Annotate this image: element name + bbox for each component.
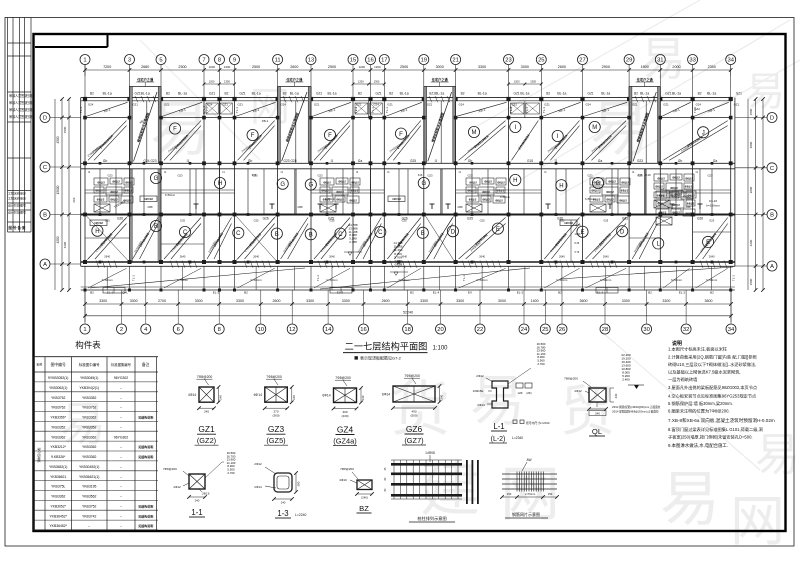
svg-text:TL-1: TL-1	[731, 275, 735, 282]
svg-text:GZ1: GZ1	[135, 92, 141, 96]
svg-text:12: 12	[289, 327, 295, 333]
svg-text:I2a: I2a	[598, 159, 603, 163]
svg-text:BL-1a: BL-1a	[141, 92, 150, 96]
middle band sub partitions	[85, 101, 731, 260]
svg-text:构件表: 构件表	[75, 340, 101, 350]
svg-text:YKB3362: YKB3362	[82, 416, 96, 420]
svg-text:6: 6	[177, 327, 180, 333]
svg-text:2640: 2640	[603, 255, 609, 259]
svg-text:3300: 3300	[622, 299, 630, 303]
svg-text:F: F	[399, 132, 403, 138]
svg-text:GZ1: GZ1	[240, 92, 246, 96]
svg-text:B: B	[275, 232, 279, 238]
svg-text:YKB3352: YKB3352	[82, 445, 96, 449]
svg-text:4200: 4200	[749, 239, 753, 246]
svg-text:TL-2: TL-2	[509, 107, 513, 114]
svg-text:Φ8@2: Φ8@2	[659, 194, 667, 198]
svg-text:12C02: 12C02	[144, 197, 153, 201]
svg-text:3300: 3300	[342, 299, 350, 303]
svg-text:EL-2: EL-2	[337, 290, 344, 294]
svg-text:h=50mm: h=50mm	[477, 278, 489, 282]
svg-text:YKB3652(1): YKB3652(1)	[49, 465, 67, 469]
svg-text:BL-1a: BL-1a	[435, 92, 444, 96]
middle band rooms	[85, 172, 731, 209]
svg-text:4200: 4200	[63, 241, 67, 248]
svg-text:240: 240	[595, 412, 600, 416]
svg-text:砖砌U10,三层及以下T砌体做法[]..水泥砂浆做法,: 砖砌U10,三层及以下T砌体做法[]..水泥砂浆做法,	[668, 361, 756, 368]
svg-text:2600: 2600	[558, 65, 566, 69]
svg-text:2500: 2500	[328, 65, 336, 69]
svg-text:1300: 1300	[224, 65, 231, 69]
svg-text:1900: 1900	[641, 65, 649, 69]
svg-text:2.788: 2.788	[349, 240, 357, 244]
svg-text:见结构说明: 见结构说明	[138, 523, 153, 528]
svg-text:F: F	[251, 133, 255, 139]
svg-text:4200: 4200	[56, 236, 60, 243]
svg-text:1200: 1200	[359, 65, 366, 69]
svg-text:G25: G25	[330, 219, 335, 223]
svg-text:A: A	[770, 264, 774, 270]
svg-text:GZ1: GZ1	[209, 92, 215, 96]
svg-text:h=50mm: h=50mm	[327, 278, 339, 282]
svg-text:2.计算荷载采用(2Q,钢筋门窗[内装 配,门窗[]参照: 2.计算荷载采用(2Q,钢筋门窗[内装 配,门窗[]参照	[668, 354, 757, 361]
balcony band	[81, 220, 736, 294]
svg-text:BL-1a: BL-1a	[290, 92, 299, 96]
svg-text:--: --	[88, 524, 90, 528]
svg-text:M: M	[472, 130, 477, 136]
svg-text:GZ1: GZ1	[427, 103, 433, 107]
svg-text:Φ8@2: Φ8@2	[351, 181, 359, 185]
svg-text:Φ8@2: Φ8@2	[482, 190, 490, 194]
svg-text:Φ8@2: Φ8@2	[467, 189, 475, 193]
svg-text:--: --	[120, 524, 122, 528]
svg-text:Φ8@2: Φ8@2	[110, 190, 118, 194]
svg-text:住宅户之通: 住宅户之通	[137, 77, 154, 82]
svg-text:B: B	[770, 213, 774, 219]
svg-text:建: 建	[420, 456, 480, 523]
svg-text:标准图中编号: 标准图中编号	[79, 362, 100, 367]
svg-text:Φ8@2: Φ8@2	[621, 189, 629, 193]
svg-text:2Φ8: 2Φ8	[686, 205, 692, 209]
svg-text:Φ8@2: Φ8@2	[97, 198, 105, 202]
svg-text:5.76: 5.76	[575, 251, 580, 254]
svg-text:标准图集编号: 标准图集编号	[111, 362, 131, 367]
svg-text:1500: 1500	[749, 278, 753, 285]
svg-text:G25: G25	[603, 219, 608, 223]
svg-text:2640: 2640	[479, 255, 485, 259]
title tab top-left	[35, 46, 108, 48]
svg-text:易: 易	[660, 466, 720, 533]
svg-text:1300: 1300	[530, 80, 536, 84]
svg-text:YKB36621: YKB36621	[50, 475, 66, 479]
svg-text:Φ8@2: Φ8@2	[606, 190, 614, 194]
svg-text:h=50mm: h=50mm	[585, 197, 595, 201]
svg-text:I1: I1	[331, 159, 334, 163]
svg-text:--: --	[120, 475, 122, 479]
svg-text:XB-1: XB-1	[262, 119, 269, 123]
svg-text:GZ1: GZ1	[512, 103, 518, 107]
svg-text:14: 14	[325, 327, 332, 333]
svg-text:15000: 15000	[56, 185, 60, 194]
svg-text:YKB3052*: YKB3052*	[50, 505, 66, 509]
svg-text:工程名称审定: 工程名称审定	[8, 196, 26, 201]
svg-text:BZ: BZ	[359, 504, 369, 513]
svg-text:150: 150	[548, 492, 553, 496]
svg-text:YKB3752: YKB3752	[82, 505, 96, 509]
svg-text:二一七层结构平面图: 二一七层结构平面图	[345, 341, 428, 352]
svg-text:1: 1	[83, 327, 86, 333]
svg-text:子板宽)250(墙厚,按门侧砌)未留安装孔D=500.: 子板宽)250(墙厚,按门侧砌)未留安装孔D=500.	[668, 434, 753, 441]
svg-text:(240): (240)	[361, 496, 368, 500]
svg-text:3000: 3000	[436, 65, 444, 69]
svg-text:9.KB326*: 9.KB326*	[51, 455, 66, 459]
svg-text:--: --	[120, 495, 122, 499]
svg-text:2Φ12: 2Φ12	[254, 462, 262, 466]
svg-text:一层为砌筑砖墙: 一层为砌筑砖墙	[668, 376, 697, 383]
svg-text:18: 18	[404, 327, 410, 333]
svg-text:--: --	[120, 514, 122, 518]
svg-text:4Φ14: 4Φ14	[188, 393, 196, 397]
svg-text:7Φ8@200: 7Φ8@200	[335, 376, 351, 380]
svg-text:G15: G15	[527, 159, 533, 163]
svg-text:7Φ8@200: 7Φ8@200	[340, 467, 354, 471]
svg-text:2640: 2640	[559, 255, 565, 259]
svg-text:GZ1: GZ1	[632, 103, 638, 107]
svg-text:2900: 2900	[602, 65, 610, 69]
svg-text:3600: 3600	[580, 299, 588, 303]
svg-text:3: 3	[128, 58, 131, 64]
svg-text:380: 380	[297, 481, 301, 486]
svg-text:4Φ12: 4Φ12	[574, 389, 582, 393]
svg-text:GZ1: GZ1	[734, 103, 740, 107]
svg-text:B2: B2	[90, 92, 94, 96]
svg-text:--: --	[120, 386, 122, 390]
svg-text:网: 网	[730, 490, 785, 552]
svg-text:B2: B2	[461, 92, 465, 96]
right vertical dimension lines	[748, 97, 765, 292]
svg-text:Φ8@2: Φ8@2	[349, 199, 357, 203]
svg-text:2X6: 2X6	[72, 197, 76, 202]
svg-text:34: 34	[728, 327, 735, 333]
svg-text:1200: 1200	[514, 80, 520, 84]
bottom dimension lines	[83, 290, 733, 322]
svg-text:G25: G25	[467, 216, 473, 220]
svg-text:2Φ14 梁端锚固(4Φ8@200mm),正截面拉: 2Φ14 梁端锚固(4Φ8@200mm),正截面拉	[612, 409, 659, 413]
lower band slab diagonals	[88, 218, 728, 260]
svg-text:7Φ8@200: 7Φ8@200	[404, 374, 420, 378]
svg-text:G25: G25	[180, 219, 185, 223]
svg-text:6.圈梁未注明的位置为7Φ8@200.: 6.圈梁未注明的位置为7Φ8@200.	[668, 408, 730, 415]
svg-text:GZ1: GZ1	[588, 92, 594, 96]
svg-text:2680: 2680	[141, 65, 149, 69]
svg-text:G25: G25	[105, 219, 110, 223]
svg-text:B2: B2	[558, 290, 562, 294]
svg-text:C: C	[236, 231, 241, 237]
column detail GZ6	[382, 374, 444, 445]
svg-text:3300: 3300	[99, 299, 107, 303]
svg-text:GZ1: GZ1	[663, 103, 669, 107]
svg-text:见结构说明: 见结构说明	[138, 513, 153, 518]
svg-text:EL-1: EL-1	[107, 290, 114, 294]
svg-text:B2: B2	[634, 92, 638, 96]
component table	[34, 357, 159, 530]
svg-text:h=50mm: h=50mm	[600, 278, 612, 282]
density pass 2	[92, 142, 727, 268]
svg-text:3300: 3300	[236, 299, 244, 303]
svg-text:(GZ5): (GZ5)	[266, 436, 285, 445]
svg-text:BL-1a: BL-1a	[520, 92, 529, 96]
svg-text:Φ8@2: Φ8@2	[497, 181, 505, 185]
svg-text:2600: 2600	[273, 299, 281, 303]
svg-text:G24: G24	[459, 103, 465, 107]
svg-text:Φ8@2: Φ8@2	[655, 185, 663, 189]
svg-text:G25: G25	[709, 219, 714, 223]
svg-text:GZ1: GZ1	[133, 103, 139, 107]
grid B thick wall	[81, 213, 735, 221]
svg-text:150: 150	[507, 492, 512, 496]
svg-text:2.400: 2.400	[622, 378, 630, 382]
svg-text:6Φ14: 6Φ14	[322, 394, 330, 398]
svg-text:(2Φ): (2Φ)	[526, 391, 531, 395]
svg-text:TL-1: TL-1	[542, 107, 546, 113]
room letter circles - upper band	[169, 121, 708, 141]
svg-text:G23 G28: G23 G28	[284, 159, 297, 163]
svg-text:G25: G25	[480, 219, 485, 223]
left letter circles and leaders	[40, 113, 81, 270]
svg-text:2Φ14: 2Φ14	[254, 485, 262, 489]
svg-text:2500: 2500	[252, 65, 260, 69]
svg-text:B: B	[421, 231, 425, 237]
svg-text:TL-1: TL-1	[316, 275, 320, 282]
svg-text:YKB3062(1): YKB3062(1)	[49, 386, 67, 390]
svg-text:Φ8@2: Φ8@2	[621, 181, 629, 185]
svg-text:YKB375L: YKB375L	[51, 485, 65, 489]
svg-text:YKB3752: YKB3752	[51, 396, 65, 400]
svg-text:1200: 1200	[358, 80, 364, 84]
svg-text:52240: 52240	[403, 310, 413, 314]
svg-text:2Φ8: 2Φ8	[458, 205, 464, 209]
svg-text:Φ8@2: Φ8@2	[674, 193, 682, 197]
svg-text:2Φ12 圈梁(配筋)(4Φ20@60)mm,正截面拉: 2Φ12 圈梁(配筋)(4Φ20@60)mm,正截面拉	[612, 405, 661, 409]
svg-text:G23: G23	[707, 174, 713, 178]
svg-text:EL-2: EL-2	[597, 290, 604, 294]
svg-text:1-1: 1-1	[191, 508, 202, 517]
svg-text:J: J	[702, 131, 705, 137]
plan title text	[343, 341, 448, 361]
svg-text:Φ8@2: Φ8@2	[469, 181, 477, 185]
svg-text:BL-1a: BL-1a	[601, 92, 610, 96]
svg-text:日期: 日期	[26, 107, 32, 112]
pile arrangement diagram	[384, 451, 479, 522]
right letter circles and leaders	[735, 113, 777, 272]
svg-text:2640: 2640	[709, 255, 715, 259]
svg-text:--: --	[120, 416, 122, 420]
svg-text:Φ8@2: Φ8@2	[110, 198, 118, 202]
svg-text:240: 240	[361, 395, 365, 400]
svg-text:GZ1: GZ1	[164, 103, 170, 107]
svg-text:BL-1a: BL-1a	[640, 92, 649, 96]
svg-text:EL-2: EL-2	[679, 290, 686, 294]
grid D interior wall	[83, 116, 732, 120]
svg-text:(GZ7): (GZ7)	[404, 436, 423, 445]
svg-text:住宅户之通: 住宅户之通	[637, 77, 654, 82]
svg-text:YKB304(2(1): YKB304(2(1)	[79, 386, 99, 390]
svg-text:BL-1a: BL-1a	[400, 92, 409, 96]
svg-text:26: 26	[559, 327, 565, 333]
svg-text:2Φ8: 2Φ8	[298, 205, 304, 209]
svg-text:--: --	[120, 465, 122, 469]
svg-text:3300: 3300	[478, 65, 486, 69]
detail 1-3	[254, 462, 306, 518]
svg-text:25: 25	[538, 58, 544, 64]
stair shafts	[130, 77, 661, 163]
svg-text:名称: 名称	[36, 362, 42, 367]
svg-text:K16: K16	[252, 173, 257, 177]
svg-text:YKB3562: YKB3562	[82, 495, 96, 499]
svg-text:2.700: 2.700	[227, 471, 235, 475]
svg-text:TL-1: TL-1	[79, 107, 83, 114]
XB-1 slab diagonals top band	[87, 102, 729, 116]
svg-text:9.本图淋水做法,水,电配合施工.: 9.本图淋水做法,水,电配合施工.	[668, 442, 728, 449]
svg-text:I2a: I2a	[713, 159, 718, 163]
svg-text:GZ1: GZ1	[544, 103, 550, 107]
svg-text:B2: B2	[225, 92, 229, 96]
svg-text:h=50mm: h=50mm	[325, 197, 335, 201]
svg-text:F: F	[173, 127, 177, 133]
svg-text:K16: K16	[638, 173, 643, 177]
svg-text:GZ1: GZ1	[238, 103, 244, 107]
svg-text:见结构说明: 见结构说明	[138, 504, 153, 509]
svg-text:B: B	[43, 213, 47, 219]
svg-text:L=2240: L=2240	[295, 513, 307, 517]
svg-text:8.窗顶门窗过梁表详见标准图集L G101,荷载二级,洞: 8.窗顶门窗过梁表详见标准图集L G101,荷载二级,洞	[668, 426, 763, 433]
svg-text:25: 25	[542, 327, 548, 333]
svg-text:h=50mm: h=50mm	[706, 278, 718, 282]
svg-text:1300: 1300	[224, 80, 230, 84]
svg-text:Φ8@2: Φ8@2	[125, 181, 133, 185]
svg-text:7Φ8@200: 7Φ8@200	[197, 375, 213, 379]
svg-text:G23: G23	[177, 174, 183, 178]
svg-text:13: 13	[308, 58, 314, 64]
svg-text:7Φ8@200: 7Φ8@200	[266, 375, 282, 379]
svg-text:GZ4: GZ4	[337, 425, 354, 435]
svg-text:1500: 1500	[63, 126, 67, 133]
svg-text:Φ8@2: Φ8@2	[657, 202, 665, 206]
svg-text:31: 31	[657, 58, 663, 64]
svg-text:表示现浇板配筋见G7-2: 表示现浇板配筋见G7-2	[360, 355, 402, 361]
svg-text:YKB30452(1): YKB30452(1)	[79, 465, 99, 469]
svg-text:备注: 备注	[142, 362, 150, 367]
svg-text:3000: 3000	[521, 65, 529, 69]
svg-text:Φ8@2: Φ8@2	[670, 186, 678, 190]
extra density pass	[85, 80, 731, 264]
svg-text:YKB3352: YKB3352	[82, 426, 96, 430]
svg-text:B2: B2	[698, 92, 702, 96]
svg-text:YKB3362: YKB3362	[51, 495, 65, 499]
svg-text:B2: B2	[710, 290, 714, 294]
svg-text:见结构说明: 见结构说明	[138, 415, 153, 420]
svg-text:--: --	[120, 455, 122, 459]
svg-text:2640: 2640	[180, 255, 186, 259]
svg-text:住宅户之通: 住宅户之通	[286, 77, 303, 82]
svg-text:3000: 3000	[749, 186, 753, 193]
svg-text:G: G	[421, 181, 426, 187]
svg-text:(GZ4a): (GZ4a)	[333, 437, 356, 446]
svg-text:G26: G26	[117, 216, 123, 220]
svg-text:YKB3742: YKB3742	[82, 514, 96, 518]
svg-text:G25: G25	[410, 159, 416, 163]
svg-text:1.本图尺寸标高未注,板面以米柱: 1.本图尺寸标高未注,板面以米柱	[668, 346, 728, 353]
svg-text:B2: B2	[546, 92, 550, 96]
svg-text:设计阶段图号: 设计阶段图号	[8, 210, 26, 215]
svg-text:9YKB3052(1): 9YKB3052(1)	[48, 376, 68, 380]
svg-text:Φ8@2: Φ8@2	[321, 189, 329, 193]
main vertical walls	[81, 98, 735, 267]
svg-text:TL-1: TL-1	[462, 275, 466, 282]
detail BZ	[339, 467, 374, 513]
svg-text:12C02: 12C02	[392, 197, 401, 201]
svg-text:YKB3362: YKB3362	[82, 455, 96, 459]
svg-text:4.空心板安装节点见标准图集96YG253规定节点: 4.空心板安装节点见标准图集96YG253规定节点	[668, 393, 756, 400]
svg-text:桩柱排列示意图: 桩柱排列示意图	[417, 515, 446, 522]
svg-text:TL-1: TL-1	[235, 107, 239, 113]
column detail GZ4	[322, 376, 365, 446]
svg-text:YKB3045(1): YKB3045(1)	[80, 376, 98, 380]
svg-text:B2: B2	[410, 290, 414, 294]
svg-text:括号内尺寸L=2040: 括号内尺寸L=2040	[526, 421, 550, 425]
svg-text:Φ8@2: Φ8@2	[469, 198, 477, 202]
svg-text:1200: 1200	[209, 65, 216, 69]
svg-text:4Φ10: 4Φ10	[339, 478, 347, 482]
svg-text:(430): (430)	[341, 414, 348, 418]
svg-text:12C02: 12C02	[94, 221, 103, 225]
svg-text:G: G	[308, 183, 313, 189]
svg-text:L-1: L-1	[493, 422, 504, 431]
svg-text:240: 240	[614, 393, 618, 398]
svg-text:G24: G24	[281, 103, 287, 107]
svg-text:G7L-1: G7L-1	[202, 106, 206, 115]
svg-text:GZ1: GZ1	[665, 92, 671, 96]
svg-text:1400: 1400	[531, 299, 539, 303]
svg-text:YKB335b*: YKB335b*	[50, 416, 66, 420]
svg-text:BL-1a: BL-1a	[103, 92, 112, 96]
svg-text:GZ1: GZ1	[223, 103, 229, 107]
svg-text:I2b: I2b	[103, 159, 108, 163]
svg-text:EL-4: EL-4	[433, 290, 440, 294]
svg-text:G23: G23	[637, 159, 643, 163]
svg-text:240: 240	[440, 394, 444, 399]
svg-text:H: H	[95, 229, 99, 235]
svg-text:见结构说明: 见结构说明	[138, 444, 153, 449]
svg-text:7: 7	[202, 58, 205, 64]
svg-text:1-3: 1-3	[277, 509, 288, 518]
svg-text:K3-16: K3-16	[709, 199, 717, 203]
svg-text:YKB3362: YKB3362	[51, 435, 65, 439]
svg-text:16Φ15E: 16Φ15E	[473, 389, 484, 393]
svg-text:h=50mm: h=50mm	[165, 193, 175, 197]
svg-text:日期: 日期	[26, 114, 32, 119]
svg-text:Φ8@2: Φ8@2	[351, 189, 359, 193]
svg-text:8: 8	[218, 327, 221, 333]
svg-text:1: 1	[83, 58, 86, 64]
detail QL	[564, 353, 661, 436]
svg-text:GZ1: GZ1	[514, 92, 520, 96]
svg-text:H: H	[559, 183, 563, 189]
svg-text:D: D	[770, 116, 774, 122]
svg-text:240: 240	[195, 499, 200, 503]
svg-text:24: 24	[521, 327, 528, 333]
top grid circles row	[80, 55, 736, 65]
